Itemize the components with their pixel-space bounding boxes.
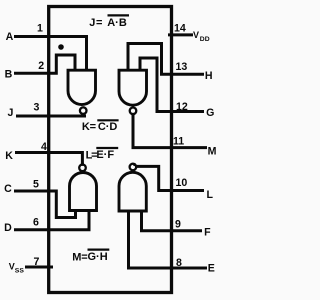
svg-text:10: 10 (176, 177, 188, 189)
svg-text:=: = (96, 17, 102, 29)
svg-text:V: V (193, 30, 199, 40)
svg-text:M: M (208, 145, 217, 157)
svg-text:A·B: A·B (107, 17, 127, 29)
inverter bubble gate3 (79, 165, 86, 172)
svg-text:4: 4 (41, 141, 47, 153)
NAND gate 1 (A,B -> J) (68, 70, 96, 104)
svg-text:F: F (204, 227, 211, 239)
pin-1 marker dot (58, 44, 64, 50)
wire pin7 VSS (25, 266, 53, 269)
svg-text:13: 13 (176, 61, 188, 73)
svg-text:DD: DD (200, 36, 210, 43)
svg-text:12: 12 (176, 101, 188, 113)
svg-text:6: 6 (33, 217, 39, 229)
svg-text:B: B (5, 69, 13, 81)
svg-text:H: H (205, 70, 213, 82)
wire pin4 K output (15, 153, 82, 165)
svg-text:A: A (6, 31, 14, 43)
wire pin1 A to gate1 input (14, 37, 87, 71)
svg-text:7: 7 (34, 256, 40, 268)
wire pin9 F to gate4 input (142, 211, 203, 231)
NAND gate 2 (H,G -> M) (119, 70, 147, 105)
junction gate4 output (133, 163, 136, 166)
svg-text:SS: SS (15, 268, 25, 275)
svg-text:9: 9 (175, 219, 181, 231)
svg-text:3: 3 (34, 102, 40, 114)
svg-text:K: K (5, 150, 13, 162)
wire pin12 G to gate2 input (140, 58, 204, 112)
wire pin2 B to gate1 input (14, 55, 75, 73)
svg-text:=: = (90, 121, 96, 133)
wire pin14 VDD (168, 33, 193, 36)
wire pin5 C to gate3 input (14, 191, 76, 218)
svg-text:G·H: G·H (88, 251, 108, 263)
wire pin8 E to gate4 input (129, 211, 208, 269)
svg-text:G: G (206, 107, 214, 119)
wire pin6 D to gate3 input (14, 210, 89, 230)
svg-text:M: M (72, 251, 81, 263)
svg-text:E·F: E·F (96, 149, 114, 161)
svg-text:C·D: C·D (98, 121, 118, 133)
svg-text:1: 1 (37, 23, 43, 35)
svg-text:C: C (4, 183, 12, 195)
IC body U1 (49, 7, 172, 293)
svg-text:D: D (4, 222, 12, 234)
svg-text:14: 14 (174, 23, 186, 35)
svg-text:L: L (206, 189, 213, 201)
wire pin3 J output (16, 115, 86, 118)
inverter bubble gate4 (130, 164, 137, 171)
wire gate4 output to pin10 L (136, 166, 205, 190)
junction gate2 output (131, 113, 134, 116)
wire pin13 H to gate2 input (128, 44, 204, 75)
svg-text:8: 8 (176, 257, 182, 269)
svg-text:J: J (89, 17, 95, 29)
inverter bubble gate2 (130, 108, 137, 115)
svg-text:E: E (208, 263, 215, 275)
NAND gate 3 (C,D -> K) (70, 173, 97, 211)
svg-text:11: 11 (173, 136, 184, 148)
junction gate3 output (81, 163, 84, 166)
wire gate2 output to pin11 M (133, 114, 207, 148)
svg-text:J: J (7, 107, 13, 119)
svg-text:2: 2 (38, 60, 44, 72)
junction gate1 output (82, 113, 85, 116)
inverter bubble gate1 (80, 107, 87, 114)
svg-text:5: 5 (33, 178, 39, 190)
NAND gate 4 (F,E -> L) (119, 172, 146, 211)
